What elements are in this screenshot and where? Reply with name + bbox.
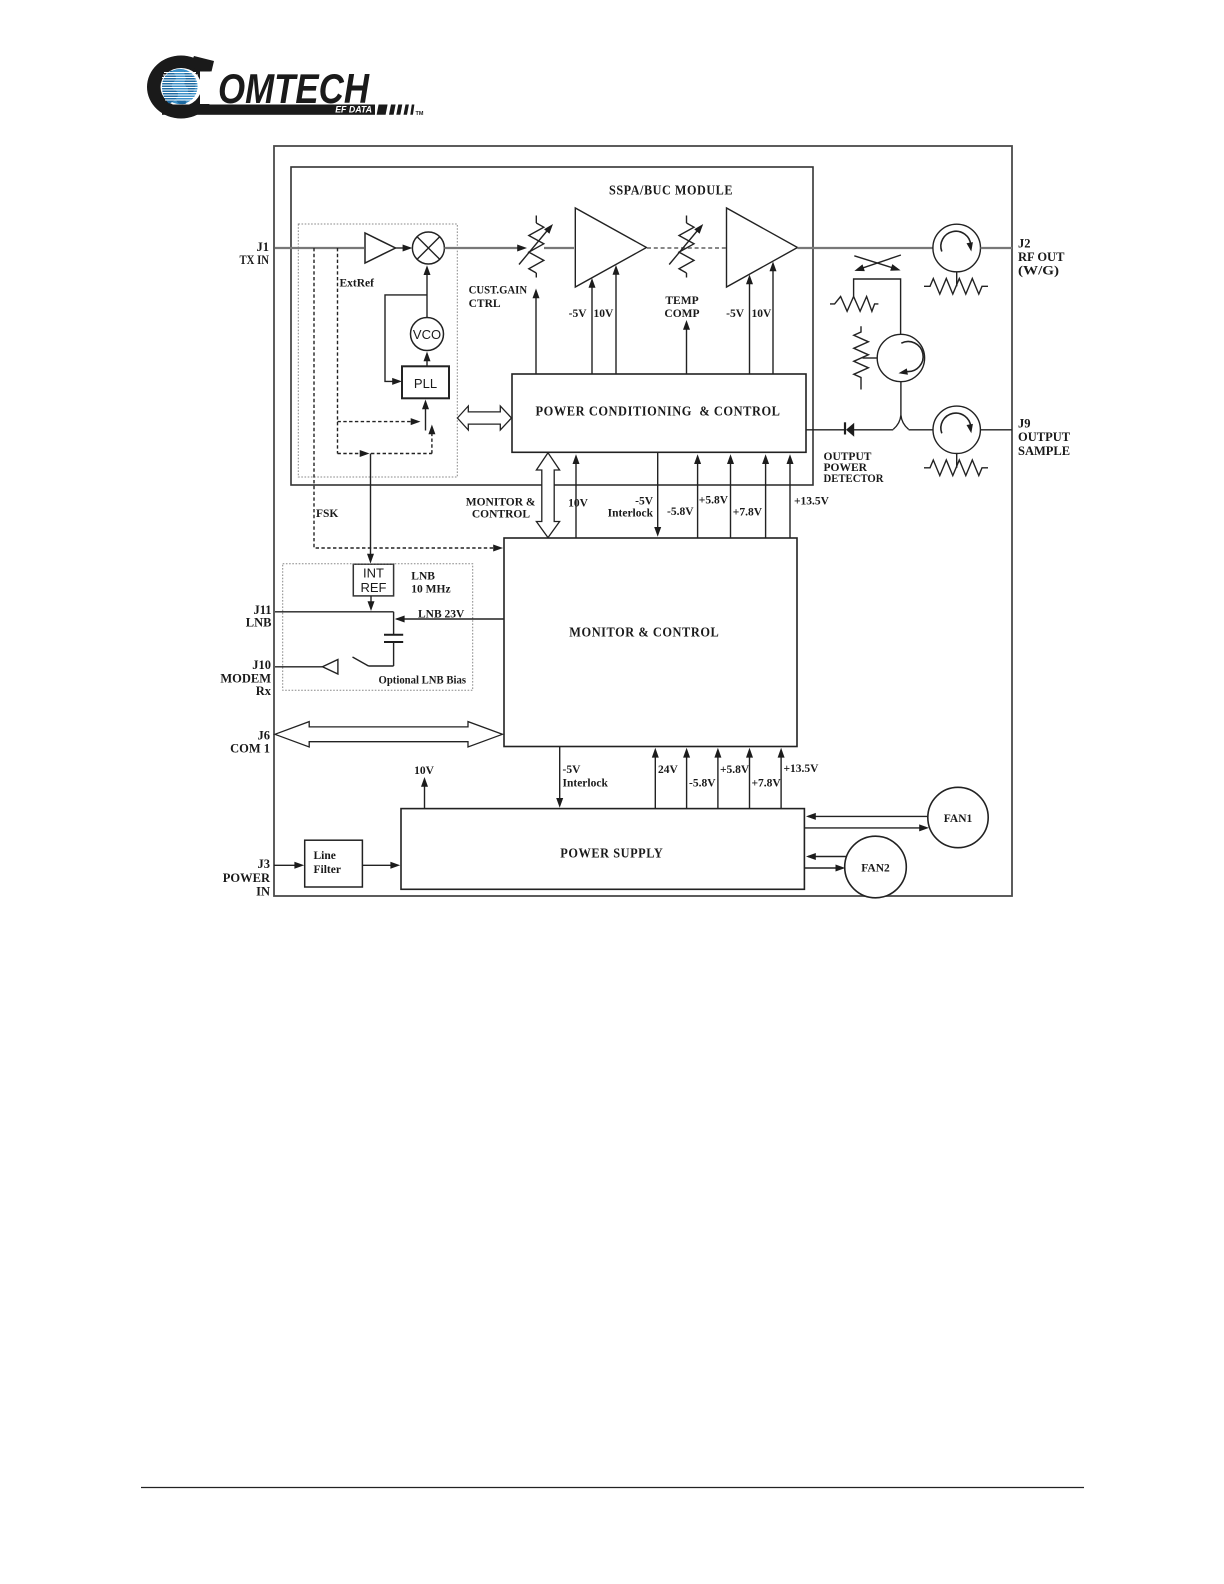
svg-text:J6: J6 [258,728,271,742]
node J3 POWER IN label [223,857,271,899]
svg-text:24V: 24V [658,764,679,776]
line filter box [305,840,363,887]
wire J9 from power conditioning [806,429,845,431]
svg-text:TEMP: TEMP [665,295,698,307]
svg-text:LNB: LNB [246,616,272,630]
svg-text:-5V: -5V [563,764,582,776]
label TEMP COMP [664,295,699,320]
power supply box [401,809,804,890]
svg-text:Line: Line [314,850,336,862]
svg-text:+13.5V: +13.5V [794,496,830,508]
bidirectional bus J6 COM1 [275,722,503,747]
wire diode to junction [854,429,893,431]
svg-text:-5.8V: -5.8V [689,777,716,789]
svg-text:LNB: LNB [411,571,435,583]
circulator CR1 [933,224,981,272]
label OUTPUT POWER DETECTOR [824,451,885,485]
VCO U3 [411,318,444,351]
svg-text:PLL: PLL [414,376,437,391]
svg-text:FAN2: FAN2 [861,862,890,874]
wire junction to circulator CR3 [909,429,933,431]
svg-text:+5.8V: +5.8V [699,495,729,507]
wire circulator to sample line [900,382,902,415]
svg-text:COM 1: COM 1 [230,742,270,756]
wire J11 LNB [275,611,394,613]
resistor R1 load [924,279,988,295]
svg-text:(W/G): (W/G) [1018,264,1059,278]
control arrow -5V A2 [591,283,593,375]
variable attenuator AT2 [669,216,703,278]
power amp A2 [575,208,646,287]
label MONITOR & CONTROL vertical bus [466,497,536,521]
label -5V 10V amp A2 [569,308,614,320]
svg-text:CUST.GAIN: CUST.GAIN [469,285,528,297]
svg-text:CONTROL: CONTROL [472,509,530,521]
svg-text:-5.8V: -5.8V [667,506,694,518]
svg-text:-5V: -5V [635,496,654,508]
svg-text:VCO: VCO [413,327,441,342]
diode D1 detector [845,422,854,437]
svg-text:OUTPUT: OUTPUT [1018,430,1071,444]
capacitor C1 [384,635,403,642]
mixer M1 [412,232,444,264]
label CUST.GAIN CTRL [469,285,528,311]
svg-text:+5.8V: +5.8V [720,764,750,776]
wire FAN2 to PS [808,856,846,858]
wire 10V M&C to PC [575,459,577,538]
wire PLL to VCO [426,360,428,367]
svg-text:INT: INT [363,566,384,581]
svg-text:SSPA/BUC MODULE: SSPA/BUC MODULE [609,182,733,197]
monitor and control box [504,538,797,747]
footer rule [141,1487,1084,1489]
wire LNB 23V [397,618,505,620]
svg-text:MONITOR &: MONITOR & [466,497,536,509]
control arrow temp comp [686,325,688,375]
wire mixer LO feed [426,273,428,318]
wire 24V PS to M&C [654,752,656,809]
wire +5.8V M&C to PC [730,459,732,538]
svg-text:RF OUT: RF OUT [1018,250,1065,264]
svg-text:10V: 10V [594,308,615,320]
wire -5.8V M&C to PC [697,459,699,538]
wire +13.5V PS to M&C [780,752,782,809]
buffer amp A1 [365,233,396,263]
wire -5V interlock M&C to PS [559,747,561,802]
svg-text:J1: J1 [257,240,270,254]
svg-text:+7.8V: +7.8V [733,507,763,519]
svg-text:EF DATA: EF DATA [335,105,372,115]
svg-text:Interlock: Interlock [563,777,609,789]
svg-text:J9: J9 [1018,417,1031,431]
wire +7.8V PS to M&C [749,752,751,809]
wire +5.8V PS to M&C [717,752,719,809]
LNB bias dotted box [283,564,473,691]
svg-text:-5V: -5V [569,308,588,320]
wire -5V interlock PC to M&C [657,452,659,530]
resistor R3 detector load [854,326,878,389]
svg-text:Filter: Filter [314,864,341,876]
svg-text:CTRL: CTRL [469,298,501,310]
svg-text:SAMPLE: SAMPLE [1018,444,1070,458]
wire circulator CR1 to J2 [981,247,1013,249]
switch SW1 [353,657,394,666]
control arrow 10V A3 [772,266,774,374]
node J6 COM 1 label [230,728,270,755]
svg-text:OUTPUT: OUTPUT [824,451,872,463]
svg-text:POWER CONDITIONING & CONTROL: POWER CONDITIONING & CONTROL [536,403,781,418]
wire PS to FAN2 [804,867,840,869]
wire PS to FAN1 [804,827,924,829]
coupler crossed lines [854,255,901,271]
svg-text:FSK: FSK [316,508,338,520]
outer enclosure border [274,146,1012,896]
svg-text:MONITOR & CONTROL: MONITOR & CONTROL [569,625,719,640]
label -5V 10V amp A3 [726,308,772,320]
svg-text:Rx: Rx [256,684,272,698]
svg-text:POWER: POWER [223,871,271,885]
label LNB 10 MHz [411,571,450,596]
fan FAN1 [928,787,988,847]
wire line filter to power supply [362,864,395,866]
node J2 RF OUT label [1018,237,1065,278]
circulator CR2 [877,334,924,381]
svg-text:10 MHz: 10 MHz [411,584,450,596]
wire circulator CR3 to J9 [980,429,1012,431]
resistor R2 termination [830,297,878,312]
svg-text:POWER SUPPLY: POWER SUPPLY [560,845,663,860]
wire -5.8V PS to M&C [686,752,688,809]
wire node to capacitor [393,612,395,634]
wire coupler bracket [854,279,901,334]
bidirectional bus PLL to power conditioning [457,406,511,430]
bidirectional bus power conditioning to monitor [536,453,559,538]
junction breakover [893,415,908,429]
svg-text:IN: IN [256,885,270,899]
power amp A3 [727,208,798,287]
svg-text:TX IN: TX IN [240,253,270,267]
svg-text:POWER: POWER [824,462,868,474]
wire +13.5V M&C to PC [789,459,791,538]
SSPA/BUC module box [291,167,813,485]
svg-text:-5V: -5V [726,308,745,320]
INT REF box [353,564,393,596]
wire CR1 load stub [956,272,958,287]
PLL U4 [402,366,449,398]
svg-text:J10: J10 [252,658,271,672]
wire ExtRef dashed V2 [337,248,339,454]
svg-text:ExtRef: ExtRef [340,278,375,290]
wire capacitor to switch [393,642,395,666]
logo Comtech EF Data [147,56,424,119]
wire 10V PS aux out [424,781,426,809]
svg-text:Interlock: Interlock [608,507,654,519]
svg-text:TM: TM [416,111,424,117]
control arrow 10V A2 [615,270,617,375]
wire dashed ref high branch [338,421,415,423]
wire mixer to attenuator [444,247,519,249]
wire attenuator to amp [544,247,574,249]
resistor R4 load [924,460,988,476]
buffer amp A4 [323,660,338,675]
control arrow cust gain [535,293,537,374]
wire J3 to line filter [274,864,300,866]
node J1 TX IN label [240,240,270,267]
wire VCO feedback loop to PLL [385,295,427,382]
variable attenuator AT1 [519,216,553,278]
node J11 LNB label [246,603,272,630]
svg-text:10V: 10V [752,308,773,320]
wire INT REF out [370,596,372,605]
wire CR3 load stub [956,454,958,468]
svg-text:+13.5V: +13.5V [784,763,820,775]
wire dashed ref low branch [338,453,364,455]
wire J1 input [275,247,364,249]
wire +7.8V M&C to PC [765,459,767,538]
svg-text:LNB 23V: LNB 23V [418,608,465,620]
node J10 MODEM Rx label [220,658,271,698]
svg-text:+7.8V: +7.8V [752,777,782,789]
svg-text:J3: J3 [258,857,271,871]
wire dashed interstage [647,247,726,249]
power conditioning and control box [512,374,806,452]
wire amp to mixer [396,247,406,249]
control arrow -5V A3 [749,279,751,374]
svg-text:10V: 10V [414,765,435,777]
node J9 OUTPUT SAMPLE label [1018,417,1071,459]
wire ExtRef dashed V1 + FSK path [314,248,499,548]
svg-text:J2: J2 [1018,237,1031,251]
svg-text:DETECTOR: DETECTOR [824,473,885,485]
svg-text:FAN1: FAN1 [944,813,973,825]
circulator CR3 [933,406,980,453]
wire to INT REF 10MHz [370,454,372,557]
wire amp to circulator [798,247,933,249]
svg-text:REF: REF [361,580,387,595]
wire PLL reference in [425,408,427,431]
svg-text:Optional LNB Bias: Optional LNB Bias [379,674,467,686]
wire J10 modem [275,666,323,668]
synthesizer dotted box [298,224,457,477]
fan FAN2 [845,836,907,898]
wire FAN1 to PS [808,815,928,817]
svg-text:10V: 10V [568,497,589,509]
svg-text:COMP: COMP [664,308,699,320]
